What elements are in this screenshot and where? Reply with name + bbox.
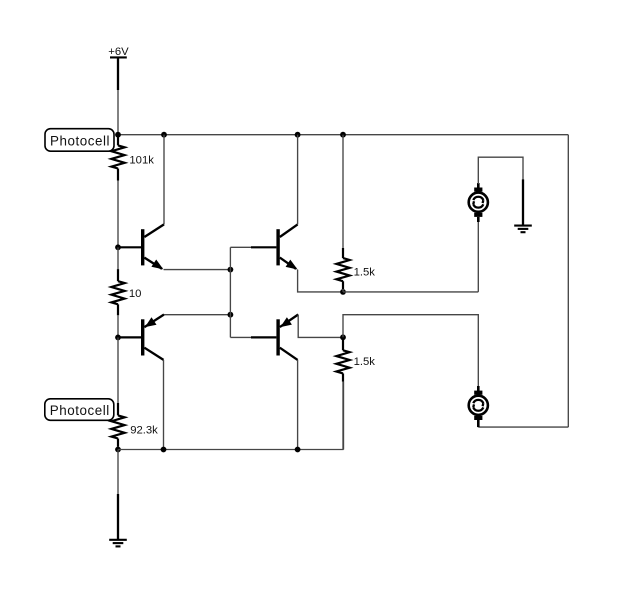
transistor Q1 NPN — [118, 224, 164, 269]
node G junction dot — [115, 335, 121, 341]
wire node G to R5 — [117, 337, 119, 403]
node I junction dot — [340, 289, 346, 295]
wire Q1 emitter to node F — [164, 269, 231, 271]
ground GND1 stub — [522, 179, 524, 225]
ground GND2 stub — [117, 494, 119, 539]
node K junction dot — [115, 447, 121, 453]
wire node K to ground — [117, 450, 119, 495]
transistor Q2 NPN — [276, 224, 297, 269]
wire right edge vertical — [567, 135, 569, 427]
transistor Q3 PNP — [118, 315, 164, 360]
wire Q2 emitter to node I — [298, 270, 343, 292]
node C junction dot — [295, 132, 301, 138]
wire node E to R2 — [117, 247, 119, 269]
wire node I to motor M1 — [343, 291, 478, 293]
node D junction dot — [340, 132, 346, 138]
resistor R5 photocell 92.3k — [111, 403, 124, 447]
wire motor M1 bottom lead — [477, 219, 479, 292]
wire motor M2 bottom to right edge — [478, 426, 568, 428]
svg-text:92.3k: 92.3k — [130, 425, 158, 437]
wire Q4 emitter to node J — [298, 315, 343, 338]
node E junction dot — [115, 244, 121, 250]
node A junction dot — [115, 132, 121, 138]
wire node D to R3 — [342, 135, 344, 248]
transistor Q4 PNP — [276, 315, 298, 360]
node F junction dot — [228, 267, 234, 273]
motor M2 — [469, 386, 488, 427]
motor M1 — [469, 183, 488, 222]
wire bottom rail — [118, 449, 344, 451]
wire Q1 collector to node B — [163, 135, 165, 225]
power supply +6V label — [108, 46, 129, 58]
photocell label 2 — [45, 399, 114, 421]
svg-text:Photocell: Photocell — [50, 403, 110, 418]
wire R2 to node G — [117, 315, 119, 337]
wire R4 to bottom rail — [342, 382, 344, 450]
ground GND2 — [109, 540, 127, 547]
wire top rail — [118, 134, 568, 136]
wire Q2 collector to node C — [297, 135, 299, 225]
node J junction dot — [340, 334, 346, 340]
node M junction dot — [295, 447, 301, 453]
svg-text:1.5k: 1.5k — [354, 356, 376, 368]
ground GND1 — [514, 226, 532, 233]
svg-text:1.5k: 1.5k — [354, 267, 376, 279]
node B junction dot — [161, 132, 167, 138]
wire Q2 base — [230, 246, 276, 248]
svg-text:Photocell: Photocell — [50, 134, 110, 149]
wire node J to motor M2 — [343, 315, 478, 386]
svg-text:101k: 101k — [129, 155, 154, 167]
wire bottom rail right riser — [343, 382, 345, 450]
wire Q4 base — [230, 336, 276, 338]
photocell label 1 — [45, 129, 114, 152]
node L junction dot — [161, 447, 167, 453]
wire supply to node A — [117, 90, 119, 135]
wire Q3 emitter to node H — [164, 314, 230, 316]
power supply +6V stub — [117, 57, 119, 90]
wire Q3 collector down — [163, 360, 165, 450]
wire Q4 collector down — [297, 360, 299, 450]
resistor R4 1.5k — [336, 340, 349, 382]
resistor R3 1.5k — [336, 248, 349, 289]
wire R5 to node K — [117, 447, 119, 450]
node H junction dot — [228, 312, 234, 318]
wire motor M1 top — [478, 157, 523, 184]
svg-text:10: 10 — [129, 288, 142, 300]
wire bus x230 — [229, 247, 231, 337]
wire R3 to node I — [342, 289, 344, 292]
wire R1 to node E — [117, 181, 119, 248]
resistor R2 10 — [111, 269, 124, 315]
resistor R1 photocell 101k — [111, 135, 124, 181]
